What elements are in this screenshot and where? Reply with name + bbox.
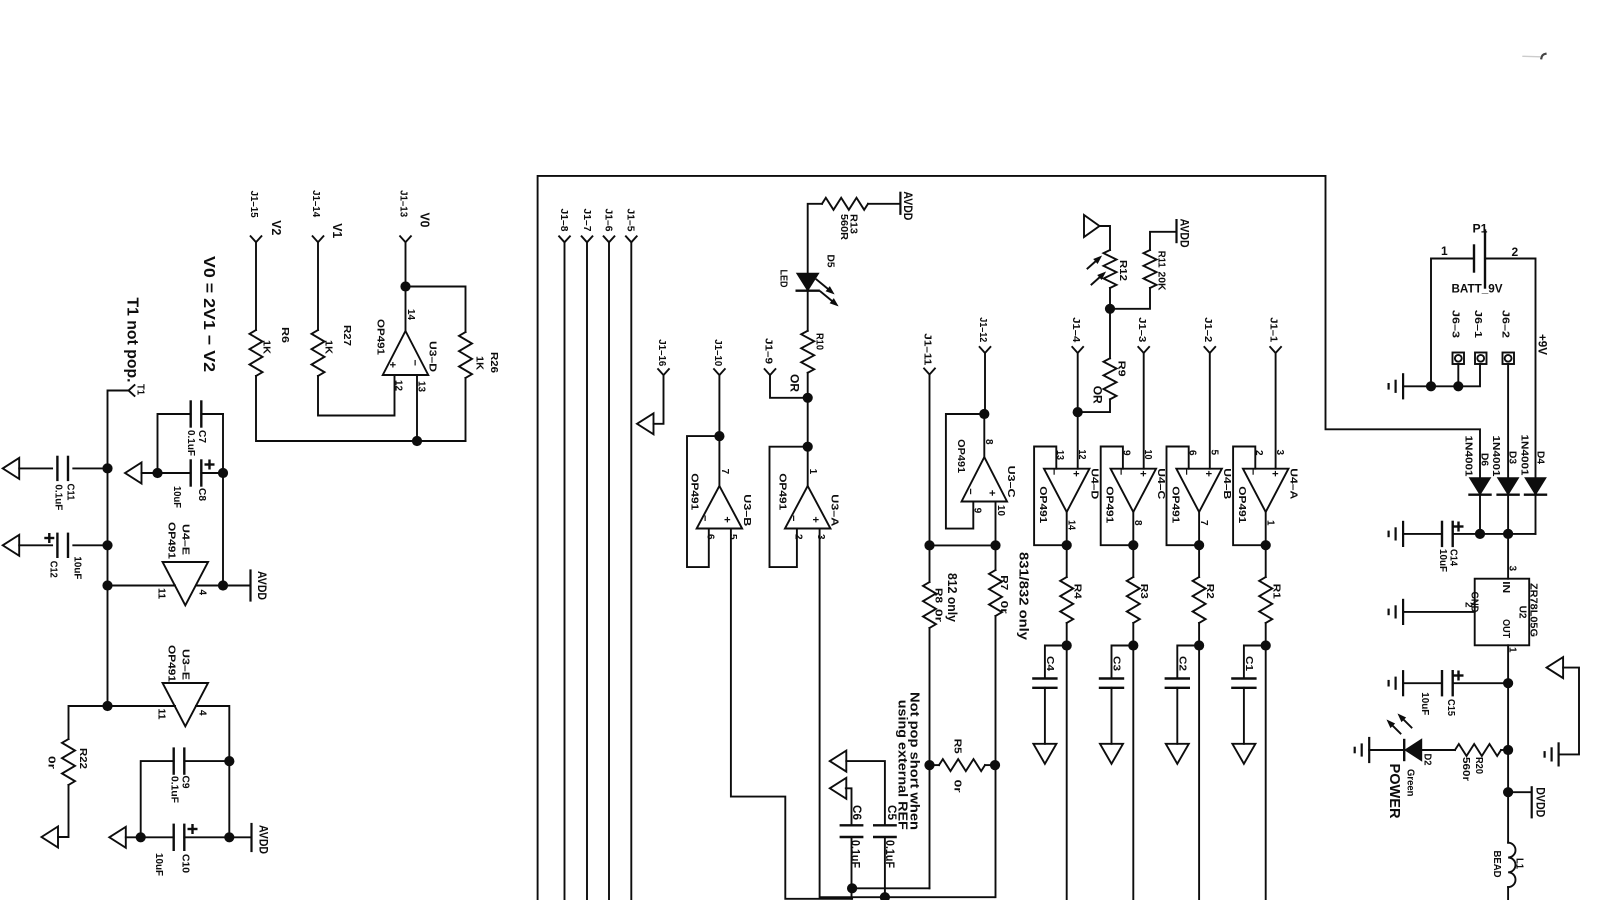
connector J1-16	[658, 369, 669, 375]
svg-text:BATT_9V: BATT_9V	[1452, 282, 1503, 296]
svg-text:U4–B: U4–B	[1221, 468, 1233, 499]
svg-text:J1–2: J1–2	[1202, 317, 1214, 342]
svg-text:4: 4	[197, 710, 208, 716]
wire R13 to LED	[808, 204, 822, 273]
node U4&#8211;A output	[1261, 540, 1271, 550]
capacitor C15 10uF	[1403, 682, 1442, 684]
resistor R27 1K	[312, 330, 325, 376]
resistor R8 0r	[923, 582, 936, 628]
svg-text:T1: T1	[135, 384, 147, 395]
power AVDD at R11	[1175, 220, 1177, 242]
svg-text:14: 14	[405, 309, 416, 320]
svg-text:10uF: 10uF	[1419, 692, 1431, 716]
resistor R11 20K	[1150, 232, 1177, 250]
node pin10/R7	[990, 540, 1000, 550]
resistor R9 OR	[1109, 309, 1111, 359]
op-amp U3-E power symbol	[163, 683, 209, 726]
svg-text:OP491: OP491	[375, 319, 387, 355]
svg-text:C6: C6	[850, 805, 864, 820]
svg-text:J1–8: J1–8	[558, 209, 570, 232]
power AVDD at C10	[250, 824, 252, 851]
svg-text:11: 11	[156, 588, 167, 599]
earth ground U2	[1402, 600, 1404, 624]
svg-text:BEAD: BEAD	[1491, 851, 1503, 878]
node C8 left	[152, 468, 162, 478]
wire to U3-A output node	[807, 398, 809, 447]
svg-text:J1–4: J1–4	[1070, 317, 1082, 342]
ground at R22	[42, 827, 59, 848]
svg-text:L1: L1	[1514, 858, 1526, 869]
op-amp U3-A	[785, 486, 831, 529]
ground at C10	[109, 827, 126, 848]
svg-text:D6: D6	[1478, 453, 1490, 466]
svg-text:8: 8	[983, 439, 994, 445]
svg-text:1N4001: 1N4001	[1519, 435, 1531, 476]
svg-text:R27: R27	[341, 325, 353, 346]
svg-text:R22: R22	[77, 748, 89, 769]
svg-text:D4: D4	[1535, 451, 1547, 464]
earth ground C14	[1402, 522, 1404, 546]
wire J1-9 to OR node	[770, 375, 808, 398]
svg-text:−: −	[1247, 469, 1259, 475]
op-amp U3-C	[962, 457, 1008, 501]
svg-text:+: +	[1202, 470, 1214, 476]
svg-text:R12: R12	[1117, 260, 1129, 281]
node U3-E junction	[102, 701, 112, 711]
svg-text:10uF: 10uF	[1437, 549, 1449, 573]
node R5 left	[924, 760, 934, 770]
svg-text:using external REF: using external REF	[896, 700, 911, 830]
wire J1-7	[586, 242, 588, 900]
svg-text:POWER: POWER	[1386, 764, 1403, 819]
resistor R1	[1259, 577, 1272, 623]
svg-text:20K: 20K	[1156, 272, 1168, 291]
svg-text:OUT: OUT	[1500, 619, 1512, 638]
earth ground D2	[1368, 738, 1370, 762]
svg-text:J1–13: J1–13	[398, 190, 410, 217]
wire P1 positive lead +9V	[1485, 259, 1536, 478]
resistor R26 1K	[459, 332, 472, 378]
wire J1-14 to R27	[317, 242, 319, 330]
wire R12 to node	[1109, 288, 1111, 309]
svg-text:J6–2: J6–2	[1500, 310, 1512, 338]
wire R4 to output node	[1066, 623, 1068, 900]
node C15 row	[1503, 678, 1513, 688]
svg-text:10uF: 10uF	[153, 853, 165, 877]
wire R6 to inverting node	[256, 376, 466, 441]
svg-text:−: −	[787, 515, 799, 521]
svg-text:Green: Green	[1405, 769, 1417, 797]
svg-text:831/832 only: 831/832 only	[1017, 552, 1032, 641]
connector J1&#8211;3	[1138, 347, 1149, 353]
wire pin 11 U4-E	[108, 585, 176, 587]
svg-text:U3–D: U3–D	[427, 341, 439, 372]
svg-text:0.1uF: 0.1uF	[883, 840, 897, 868]
svg-text:4: 4	[197, 590, 208, 596]
svg-text:DVDD: DVDD	[1533, 787, 1545, 817]
svg-text:J6–1: J6–1	[1472, 310, 1484, 338]
svg-text:OR: OR	[788, 374, 800, 393]
svg-text:C9: C9	[180, 776, 192, 789]
node C3 junction	[1128, 640, 1138, 650]
node OR junction	[803, 393, 813, 403]
svg-text:12: 12	[1076, 450, 1087, 460]
svg-text:11: 11	[156, 709, 167, 720]
wire power loop from bottom-left to D6	[538, 176, 1480, 900]
svg-text:560R: 560R	[838, 214, 849, 241]
wire R9 to J1-4 node	[1078, 399, 1110, 412]
wire R7 to C5 node	[995, 616, 997, 897]
node C12 junction	[102, 540, 112, 550]
svg-text:+: +	[1070, 470, 1082, 476]
op-amp U4&#8211;B	[1176, 469, 1222, 512]
svg-text:U3–A: U3–A	[829, 494, 841, 526]
regulator U2 ZR78L05G	[1475, 579, 1530, 646]
svg-text:OP491: OP491	[166, 522, 178, 559]
svg-text:AVDD: AVDD	[901, 191, 913, 220]
svg-text:1K: 1K	[474, 356, 486, 370]
svg-text:J1–12: J1–12	[977, 317, 989, 342]
wire R27 to pin 12	[318, 375, 395, 416]
svg-text:C15: C15	[1445, 699, 1457, 716]
wire C14 row to U2	[1507, 534, 1509, 579]
wire R2 to output node	[1198, 623, 1200, 900]
capacitor C10 10uF polarized	[126, 836, 174, 838]
node J1-4/R9	[1073, 407, 1083, 417]
wire R3 to output node	[1132, 623, 1134, 900]
svg-text:3: 3	[1507, 566, 1518, 572]
wire U4&#8211;D output	[1066, 512, 1068, 577]
connector T1	[129, 385, 135, 396]
node D6 row	[1475, 529, 1485, 539]
capacitor C9 0.1uF	[141, 761, 174, 837]
svg-text:OP491: OP491	[1170, 486, 1182, 523]
svg-text:10: 10	[995, 505, 1006, 516]
connector J1-6	[604, 236, 615, 242]
wire pin 8 U3-C	[983, 414, 985, 457]
node J6-3 ground	[1453, 381, 1463, 391]
svg-text:6: 6	[704, 534, 715, 540]
wire U4&#8211;A feedback	[1233, 447, 1266, 546]
svg-text:+: +	[1269, 470, 1281, 476]
wire pin 13 to node	[416, 375, 418, 441]
ground at C5	[830, 751, 847, 772]
svg-text:U4–A: U4–A	[1288, 468, 1300, 499]
svg-text:1N4001: 1N4001	[1490, 436, 1502, 477]
capacitor C2	[1177, 646, 1199, 679]
svg-text:AVDD: AVDD	[1177, 219, 1189, 248]
connector J1-5	[626, 236, 637, 242]
svg-text:J1–9: J1–9	[763, 338, 775, 364]
capacitor C4	[1045, 646, 1067, 679]
earth ground chassis	[1557, 743, 1559, 765]
node inverting junction	[412, 436, 422, 446]
svg-text:812 only: 812 only	[945, 573, 960, 623]
svg-text:U2: U2	[1517, 606, 1529, 619]
svg-text:U4–C: U4–C	[1155, 468, 1167, 499]
svg-text:AVDD: AVDD	[255, 571, 267, 600]
svg-text:OP491: OP491	[1104, 486, 1116, 523]
svg-text:R20: R20	[1473, 757, 1485, 774]
svg-text:C8: C8	[196, 488, 208, 501]
resistor R10 OR	[801, 331, 814, 373]
resistor R20 560r	[1422, 749, 1455, 751]
capacitor C1	[1244, 646, 1266, 679]
svg-text:0.1uF: 0.1uF	[53, 484, 65, 511]
svg-text:2: 2	[792, 534, 803, 540]
resistor R22 0r	[69, 706, 108, 739]
svg-text:OR: OR	[1091, 386, 1103, 405]
op-amp U4&#8211;A	[1243, 469, 1289, 512]
svg-text:V1: V1	[330, 223, 344, 238]
svg-text:10uF: 10uF	[171, 486, 183, 509]
wire pin 11 U3-E	[108, 705, 176, 707]
svg-text:U4–D: U4–D	[1089, 468, 1101, 499]
svg-text:IN: IN	[1500, 581, 1512, 593]
node C10 left	[136, 832, 146, 842]
svg-text:V0: V0	[418, 213, 432, 228]
svg-text:7: 7	[719, 469, 730, 475]
capacitor C11 0.1uF	[19, 467, 52, 469]
node U4&#8211;C output	[1128, 540, 1138, 550]
svg-text:U3–C: U3–C	[1005, 466, 1017, 498]
svg-text:OP491: OP491	[955, 439, 967, 473]
node U4-E pin4	[218, 580, 228, 590]
ground at C6	[830, 778, 847, 799]
svg-text:0.1uF: 0.1uF	[849, 840, 863, 868]
wire to DVDD node	[1507, 750, 1509, 792]
svg-text:J1–14: J1–14	[310, 190, 322, 217]
svg-text:1: 1	[807, 469, 818, 475]
wire J1-4	[1077, 353, 1079, 412]
ground at C12	[3, 535, 20, 556]
capacitor C3	[1112, 646, 1134, 679]
op-amp U4&#8211;C	[1111, 469, 1157, 512]
svg-text:D3: D3	[1507, 451, 1519, 464]
ground at C11	[3, 458, 20, 479]
resistor R13 560R	[822, 198, 868, 210]
svg-text:R4: R4	[1072, 584, 1084, 599]
svg-text:3: 3	[1274, 450, 1285, 456]
svg-text:V2: V2	[269, 220, 283, 235]
svg-text:−: −	[964, 488, 976, 494]
connector J1-4	[1072, 347, 1083, 353]
power AVDD at R13	[899, 193, 901, 214]
wire pin 7 U3-B	[718, 436, 720, 486]
wire J1&#8211;2 to U4&#8211;B +input	[1209, 353, 1211, 469]
LED D2 arrows	[1392, 725, 1400, 733]
capacitor C12 10uF polarized	[19, 544, 52, 546]
svg-text:0.1uF: 0.1uF	[185, 430, 197, 457]
svg-text:0r: 0r	[951, 780, 963, 793]
svg-text:J1–6: J1–6	[603, 209, 615, 232]
wire R26 bottom	[465, 378, 467, 441]
ground at C8	[125, 463, 142, 484]
svg-text:T1 not pop.: T1 not pop.	[124, 298, 141, 383]
svg-text:0r: 0r	[998, 601, 1010, 614]
svg-text:OP491: OP491	[1037, 486, 1049, 523]
svg-text:D5: D5	[825, 255, 837, 268]
wire R8 to REF node	[929, 628, 931, 888]
inductor L1 BEAD	[1508, 843, 1515, 887]
power AVDD at U4-E	[249, 571, 251, 601]
wire J1-5	[630, 242, 632, 900]
wire J1-15 to R6	[255, 242, 257, 330]
svg-text:+: +	[1136, 470, 1148, 476]
node U4-E junction	[102, 580, 112, 590]
capacitor C14 10uF	[1403, 533, 1442, 535]
svg-text:−: −	[1180, 469, 1192, 475]
svg-text:10uF: 10uF	[72, 556, 84, 580]
wire J1-11 rail	[929, 375, 931, 546]
capacitor C5 0.1uF	[846, 761, 885, 825]
svg-text:0.1uF: 0.1uF	[169, 776, 181, 804]
wire U3-A feedback	[770, 447, 808, 567]
earth ground C15	[1402, 671, 1404, 695]
resistor R7 0r	[995, 545, 997, 570]
svg-text:C10: C10	[180, 854, 192, 873]
ground symbol chassis pair	[1547, 657, 1564, 678]
wire to U4-D +input	[1077, 412, 1079, 469]
wire R1 to output node	[1265, 623, 1267, 900]
node P1 ground	[1426, 381, 1436, 391]
connector J1-8	[559, 236, 570, 242]
svg-text:AVDD: AVDD	[257, 825, 269, 854]
svg-text:+: +	[809, 516, 821, 522]
svg-text:+9V: +9V	[1536, 334, 1550, 355]
connector J1-10	[714, 369, 725, 375]
svg-text:R8: R8	[933, 588, 945, 603]
svg-text:1N4001: 1N4001	[1462, 436, 1474, 477]
connector J1&#8211;2	[1204, 347, 1215, 353]
svg-text:3: 3	[815, 534, 826, 540]
svg-text:C12: C12	[47, 561, 59, 578]
pad J6-1	[1475, 353, 1487, 365]
resistor R5 0r	[930, 764, 940, 766]
wire U4&#8211;C output	[1132, 512, 1134, 577]
wire U2 GND pin 2	[1403, 611, 1475, 613]
svg-text:1K: 1K	[261, 340, 273, 354]
connector J1-15 (V2)	[251, 236, 262, 242]
connector J1&#8211;1	[1270, 347, 1281, 353]
svg-text:560r: 560r	[1460, 757, 1472, 781]
wire J1-12	[984, 353, 986, 414]
svg-text:J1–7: J1–7	[581, 209, 593, 232]
node DVDD	[1503, 787, 1513, 797]
wire P1 negative lead	[1431, 259, 1474, 387]
wire J6-2 to D3	[1507, 364, 1509, 478]
diode D4 1N4001	[1525, 478, 1546, 495]
svg-text:J6–3: J6–3	[1450, 310, 1462, 338]
wire horizontal J1-11 to pin 10	[930, 544, 996, 546]
svg-text:1K: 1K	[323, 340, 335, 354]
svg-text:LED: LED	[778, 270, 790, 288]
svg-text:R9: R9	[1116, 361, 1128, 377]
wire R10 to node	[807, 373, 809, 398]
svg-text:5: 5	[727, 534, 738, 540]
wire pin 3 U3-A to REF cap	[820, 529, 995, 898]
R12 arrows	[1088, 261, 1096, 268]
pad J6-3	[1453, 353, 1465, 365]
node R12/R11/R9	[1105, 304, 1115, 314]
wire U4&#8211;D feedback	[1034, 447, 1067, 546]
pad J6-2	[1503, 353, 1515, 365]
connector J1-12	[980, 347, 991, 353]
svg-text:2: 2	[1512, 245, 1519, 259]
svg-text:C11: C11	[65, 484, 77, 501]
diode D6 1N4001	[1470, 478, 1491, 495]
svg-text:R6: R6	[279, 327, 291, 343]
wire pin 4 U4-E	[196, 585, 251, 587]
node C5 bottom	[880, 892, 890, 900]
wire J1-10 to U3-B	[718, 375, 720, 436]
wire AVDD to R13	[868, 203, 900, 205]
svg-text:5: 5	[1208, 450, 1219, 456]
svg-text:C4: C4	[1044, 656, 1056, 671]
wire DVDD to L1	[1507, 792, 1509, 843]
wire diode outputs to C14 row	[1479, 495, 1481, 534]
node C1 junction	[1261, 640, 1271, 650]
wire node to R8	[929, 545, 931, 582]
wire U4&#8211;A output	[1265, 512, 1267, 577]
node U4&#8211;D output	[1062, 540, 1072, 550]
svg-text:J1–1: J1–1	[1268, 317, 1280, 342]
connector J1-14 (V1)	[313, 236, 324, 242]
svg-text:R3: R3	[1138, 584, 1150, 599]
svg-text:J1–10: J1–10	[712, 339, 724, 366]
wire R11 to node	[1110, 288, 1150, 309]
op-amp U3-D	[383, 331, 429, 375]
node U3-A output	[803, 442, 813, 452]
wire J1-16 to ground	[654, 375, 664, 424]
svg-text:U3–E: U3–E	[180, 649, 192, 680]
node R20 row	[1503, 745, 1513, 755]
svg-text:OP491: OP491	[1236, 486, 1248, 523]
svg-text:C1: C1	[1243, 656, 1255, 671]
resistor R3	[1127, 577, 1140, 623]
svg-text:OP491: OP491	[776, 473, 788, 510]
earth ground battery	[1402, 374, 1404, 398]
svg-text:J1–11: J1–11	[922, 333, 934, 365]
ground at R12	[1084, 215, 1100, 237]
connector J1-7	[582, 236, 593, 242]
op-amp U3-B	[697, 486, 743, 529]
svg-text:−: −	[1048, 469, 1060, 475]
svg-text:+: +	[985, 490, 997, 496]
node C8 right	[218, 468, 228, 478]
svg-text:OP491: OP491	[166, 645, 178, 682]
wire U3-B feedback	[687, 436, 719, 567]
svg-text:0r: 0r	[46, 756, 58, 769]
wire U4&#8211;B output	[1198, 512, 1200, 577]
wire pin 1 U3-A	[807, 447, 809, 486]
wire L1 to bottom	[1507, 887, 1509, 900]
resistor R12 photo	[1100, 226, 1111, 250]
node J1-11/pin10	[924, 540, 934, 550]
svg-text:R26: R26	[488, 352, 500, 373]
power DVDD	[1508, 791, 1531, 793]
svg-text:U4–E: U4–E	[180, 524, 192, 555]
wire J1-6	[608, 242, 610, 900]
node C11 junction	[102, 463, 112, 473]
wire U3-C feedback	[946, 414, 984, 529]
node V0 junction	[400, 281, 410, 291]
svg-text:10: 10	[1142, 450, 1153, 460]
wire T1 rail	[108, 391, 129, 707]
svg-text:V0 = 2V1 − V2: V0 = 2V1 − V2	[200, 256, 217, 372]
wire output to pin 14	[405, 287, 407, 332]
node U3-C output	[979, 409, 989, 419]
